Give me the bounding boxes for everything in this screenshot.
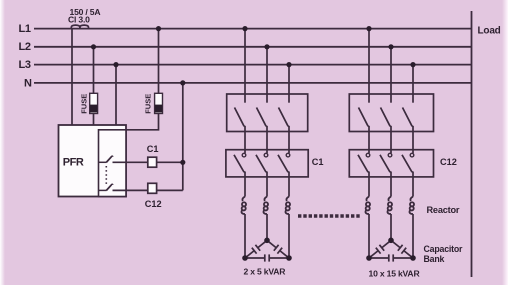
contactor KA pole 3: [278, 153, 290, 196]
wire reactor to delta A mid: [266, 214, 268, 240]
breaker QB pole 1: [359, 94, 370, 153]
wire coil C1 to N: [157, 161, 183, 163]
svg-text:C1: C1: [147, 144, 159, 154]
svg-text:Load: Load: [478, 26, 501, 37]
contactor KB pole 1: [358, 153, 370, 196]
node dot delta A left: [242, 255, 248, 261]
node dot branch A L2: [264, 44, 269, 49]
wire relay2 to coil C12: [113, 189, 148, 191]
node dot branch B L1: [366, 26, 371, 31]
node dot L3 tap: [113, 62, 118, 67]
contactor KA pole 2: [256, 153, 268, 196]
capacitor bank A delta bottom edge capacitor: [245, 254, 289, 261]
svg-text:2 x 5 kVAR: 2 x 5 kVAR: [244, 267, 287, 277]
svg-text:C12: C12: [440, 157, 457, 167]
wire branch B L3 drop: [412, 65, 414, 94]
wire reactor to delta B mid: [390, 214, 392, 240]
node dot N tap: [180, 80, 185, 85]
load feeder vertical wire: [471, 11, 473, 277]
node dot delta A right: [286, 255, 292, 261]
wire coil C12 to N: [157, 189, 183, 191]
contactor KA pole 1: [234, 153, 246, 196]
reactor LA3: [285, 197, 290, 214]
wire L2 to fuse F1 to PFR: [93, 47, 95, 125]
svg-text:L3: L3: [19, 59, 31, 71]
wire relay1 to coil C1: [113, 161, 148, 163]
PFR relay output sub-box: [99, 130, 127, 197]
node dot branch B L3: [410, 62, 415, 67]
relay contact 2 (C12 output): [99, 184, 113, 190]
svg-text:L2: L2: [19, 41, 31, 53]
fuse F2: [155, 93, 163, 113]
coil C12: [148, 183, 157, 193]
mechanical link dotted line: [105, 166, 107, 185]
svg-text:Cl 3.0: Cl 3.0: [68, 14, 90, 24]
wire reactor to delta B right: [412, 214, 414, 258]
node dot delta B left: [366, 255, 372, 261]
svg-text:C12: C12: [145, 199, 162, 209]
wire branch A L2 drop: [266, 47, 268, 94]
breaker QB pole 3: [403, 94, 414, 153]
capacitor bank A delta left edge capacitor: [243, 237, 270, 261]
reactor LA1: [241, 197, 246, 214]
coil C1: [148, 157, 157, 167]
node dot delta B right: [410, 255, 416, 261]
wire L1 to fuse F2 to relay common: [126, 29, 159, 130]
svg-text:C1: C1: [312, 157, 324, 167]
dotted continuation between stages: [298, 214, 360, 218]
wire reactor to delta A left: [244, 214, 246, 258]
capacitor bank B delta bottom edge capacitor: [369, 254, 413, 261]
svg-text:10 x 15 kVAR: 10 x 15 kVAR: [369, 269, 421, 279]
wire reactor to delta B left: [368, 214, 370, 258]
contactor KB pole 2: [380, 153, 392, 196]
current transformer CT 150/5A: [71, 25, 80, 29]
fuse F1: [90, 93, 98, 113]
reactor LA2: [263, 197, 268, 214]
node dot L1 tap fuse F2: [156, 26, 161, 31]
reactor LB2: [387, 197, 392, 214]
bus L1 wire: [34, 28, 472, 30]
capacitor bank B delta left edge capacitor: [367, 237, 394, 261]
wire CT to PFR (L1 sense): [71, 29, 73, 125]
bus L2 wire: [34, 46, 472, 48]
wire L3 to PFR: [115, 65, 117, 125]
relay contact 1 (C1 output): [99, 156, 113, 162]
node dot delta A top: [264, 238, 270, 244]
node dot L2 tap: [91, 44, 96, 49]
svg-text:FUSE: FUSE: [79, 94, 88, 114]
reactor LB3: [409, 197, 414, 214]
reactor LB1: [365, 197, 370, 214]
breaker QA pole 1: [235, 94, 246, 153]
svg-text:PFR: PFR: [63, 156, 84, 168]
breaker box QA: [227, 94, 308, 132]
node dot branch A L1: [242, 26, 247, 31]
wire branch B L2 drop: [390, 47, 392, 94]
node dot branch B L2: [388, 44, 393, 49]
svg-text:Capacitor: Capacitor: [424, 244, 464, 254]
capacitor bank A delta right edge capacitor: [265, 237, 292, 261]
breaker box QB: [349, 94, 433, 132]
node dot coil C1 to N: [180, 160, 185, 165]
svg-text:FUSE: FUSE: [143, 94, 152, 114]
wire branch A L1 drop: [244, 29, 246, 94]
wire N to contactor coils return: [182, 83, 184, 190]
svg-text:L1: L1: [19, 23, 31, 35]
capacitor bank B delta right edge capacitor: [389, 237, 416, 261]
wire branch B L1 drop: [368, 29, 370, 94]
node dot delta B top: [388, 238, 394, 244]
contactor box KB: [349, 150, 433, 177]
svg-text:Bank: Bank: [424, 254, 445, 264]
breaker QB pole 2: [381, 94, 392, 153]
wire reactor to delta A right: [288, 214, 290, 258]
contactor KB pole 3: [402, 153, 414, 196]
contactor box KA: [226, 150, 308, 177]
PFR regulator box U1: [59, 125, 127, 197]
breaker QA pole 3: [279, 94, 290, 153]
bus L3 wire: [34, 64, 472, 66]
breaker QA pole 2: [257, 94, 268, 153]
bus N wire: [34, 82, 472, 84]
wire branch A L3 drop: [288, 65, 290, 94]
svg-text:Reactor: Reactor: [427, 205, 460, 215]
svg-text:N: N: [24, 78, 32, 90]
node dot branch A L3: [286, 62, 291, 67]
